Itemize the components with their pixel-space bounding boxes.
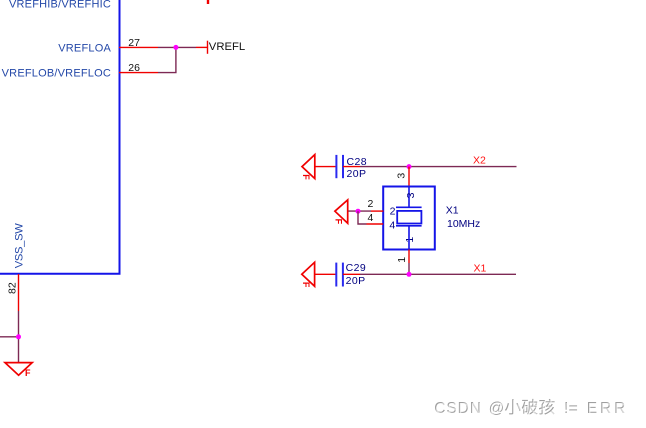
ground port F bottom left [5,363,32,379]
crystal pin 3 line [408,167,410,187]
power port F for crystal pins 2/4 [333,200,347,225]
capacitor C28 pin right [343,166,360,168]
junction dot C [356,209,361,214]
crystal pin 1 line [408,250,410,275]
svg-text:X1: X1 [446,204,459,216]
capacitor C28 pin left [315,166,336,168]
capacitor C29 pin right [343,273,360,275]
crystal X1 box [383,187,435,250]
crystal top lead [408,187,410,208]
svg-text:@: @ [490,401,506,418]
pin VREFLOA line [119,46,158,48]
svg-text:VREFHIB/VREFHIC: VREFHIB/VREFHIC [9,0,111,10]
svg-text:F: F [301,174,311,180]
svg-text:X2: X2 [473,155,486,167]
power port F for C29 [301,262,315,288]
svg-text:C29: C29 [346,262,366,274]
junction dot X1 [407,272,412,277]
svg-text:VREFLOA: VREFLOA [58,42,111,54]
junction dot X2 [407,164,412,169]
capacitor C29 pin left [315,273,336,275]
svg-text:20P: 20P [346,275,366,287]
svg-text:1: 1 [396,257,408,263]
crystal pin 2 wire [348,210,383,212]
junction dot A [173,45,178,50]
svg-text:F: F [333,219,343,225]
svg-text:2: 2 [368,198,374,210]
svg-text:F: F [25,368,31,378]
svg-text:F: F [301,282,311,288]
svg-text:10MHz: 10MHz [447,218,480,230]
IC U1 outline [0,0,120,274]
power port F for C28 [301,155,315,181]
capacitor C28 plates [336,155,343,178]
svg-text:ERR: ERR [588,401,629,418]
watermark CSDN [434,399,628,417]
crystal bottom lead [408,226,410,250]
svg-text:VSS_SW: VSS_SW [14,223,26,269]
capacitor C29 plates [336,263,343,287]
junction dot B [16,334,21,339]
svg-text:20P: 20P [347,168,367,180]
port VREFL tick [207,41,209,54]
pin VREFLOB line [119,72,158,74]
svg-text:3: 3 [405,192,417,198]
wire pin27 to junction [158,46,196,48]
svg-text:4: 4 [389,219,395,231]
svg-text:VREFLOB/VREFLOC: VREFLOB/VREFLOC [2,68,111,80]
wire left branch [0,336,19,338]
wire VSS to ground [18,311,20,362]
wire C28 to X2 [360,166,517,168]
svg-text:CSDN: CSDN [435,401,483,418]
wire junction to VREFL port [196,46,208,48]
svg-text:X1: X1 [474,262,487,274]
crystal pin 4 wire [358,211,383,224]
wire C29 to X1 [360,273,516,275]
svg-text:VREFL: VREFL [209,41,245,53]
svg-text:2: 2 [390,206,396,218]
port stub top right [207,0,209,4]
crystal body rect [397,211,421,224]
pin VSS_SW line [18,274,20,311]
crystal plate top [396,206,422,208]
svg-text:82: 82 [6,282,18,294]
svg-text:!=: != [565,401,579,418]
svg-text:3: 3 [396,173,408,179]
wire pin26 up to junction [158,47,176,72]
svg-text:4: 4 [368,212,374,224]
crystal plate bottom [396,225,422,227]
